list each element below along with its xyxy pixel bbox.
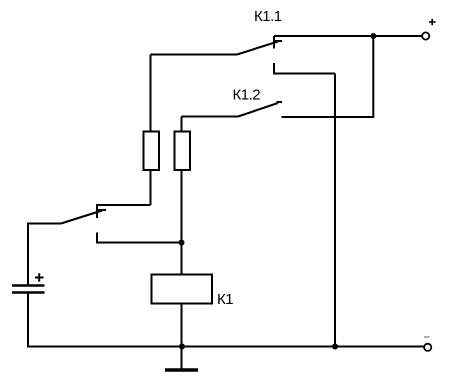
node junction dot at relay top net — [179, 240, 185, 246]
switch SA1 blade — [61, 210, 106, 224]
battery negative plate — [12, 291, 45, 293]
wire top rail to + terminal — [274, 35, 422, 37]
wire switch upper contact to R1 bottom — [97, 205, 151, 218]
wire battery - down to bottom rail — [27, 294, 28, 347]
switch K1.2 blade — [238, 102, 282, 117]
wire from junction down to K1.2 contact — [282, 36, 374, 117]
wire R1 top lead — [150, 55, 152, 132]
wire right vertical to bottom rail — [334, 74, 336, 347]
wire relay coil top lead — [181, 243, 183, 275]
wire R2 bottom lead to junction — [181, 170, 183, 243]
switch K1.1 upper contact stub — [273, 36, 275, 49]
wire R1 bottom lead — [150, 170, 152, 205]
wire K1.1 lower contact to right vertical — [274, 63, 335, 74]
wire bottom rail — [27, 346, 424, 348]
switch K1.1 blade — [237, 41, 282, 55]
label + (plus sign near terminal) — [429, 19, 436, 25]
resistor R2 — [175, 132, 191, 171]
relay coil K1 — [152, 275, 213, 304]
ground — [165, 368, 198, 372]
svg-text:К1.1: К1.1 — [254, 8, 282, 25]
node junction dot bottom right — [332, 344, 338, 350]
wire relay coil bottom lead to ground — [181, 304, 183, 369]
terminal + circle — [422, 32, 429, 39]
wire K1.1 left — [151, 54, 238, 56]
terminal - circle — [424, 344, 431, 351]
battery positive plate — [12, 284, 45, 286]
label - (minus sign near terminal) — [424, 336, 430, 338]
wire battery + to switch — [28, 224, 61, 285]
node junction dot top — [370, 33, 376, 39]
resistor R1 — [144, 132, 160, 171]
svg-text:К1: К1 — [217, 291, 233, 308]
wire R2 top lead — [181, 117, 183, 132]
wire K1.2 left to R2 — [182, 116, 239, 118]
svg-text:К1.2: К1.2 — [233, 87, 261, 104]
label + (battery polarity) — [35, 273, 44, 281]
node junction dot bottom center — [179, 344, 185, 350]
wire junction to switch lower contact — [97, 233, 182, 243]
